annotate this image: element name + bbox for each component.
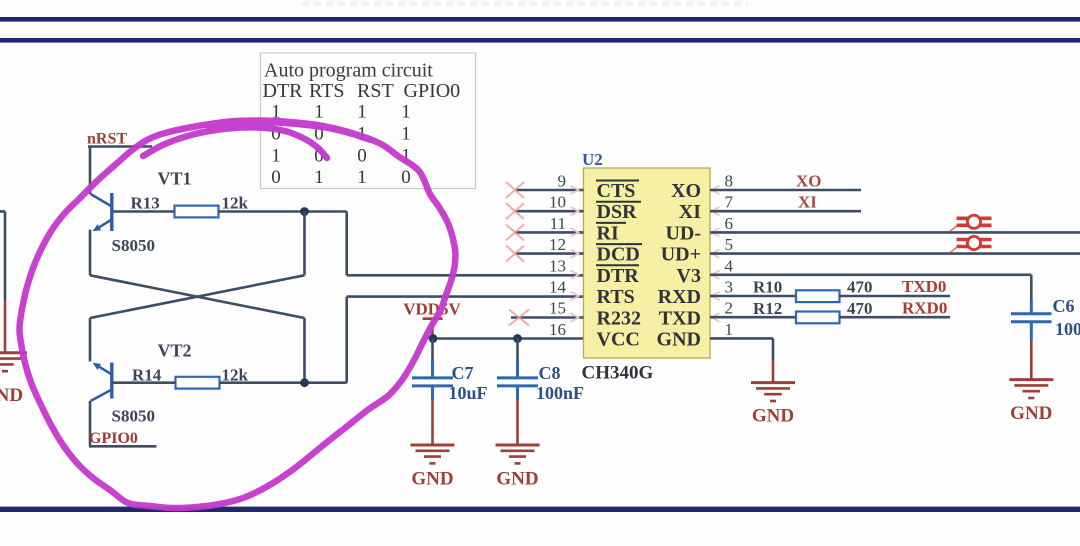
svg-text:GND: GND: [496, 469, 538, 490]
svg-text:GND: GND: [657, 329, 701, 351]
svg-text:RTS: RTS: [597, 286, 635, 308]
table: Auto program circuit truth table: [261, 53, 476, 189]
svg-text:12k: 12k: [222, 193, 249, 212]
wire cross diagonal B: [90, 275, 305, 318]
svg-text:R12: R12: [753, 299, 782, 318]
U2 pin names left column: [597, 180, 641, 351]
svg-text:RI: RI: [597, 222, 619, 244]
svg-text:RXD0: RXD0: [902, 298, 947, 317]
svg-text:CTS: CTS: [597, 180, 636, 202]
wire U2 pin 4 (V3) to C6: [710, 275, 1031, 300]
wire C8 to ground: [516, 400, 519, 445]
svg-text:R10: R10: [753, 278, 782, 297]
U2 pin entry chevrons: [571, 186, 720, 322]
diff-pair marker 2: [949, 240, 992, 254]
wire U2 pin 15 stub: [511, 316, 584, 319]
svg-text:470: 470: [847, 299, 873, 318]
svg-text:CH340G: CH340G: [582, 362, 654, 383]
svg-text:C7: C7: [452, 363, 474, 383]
svg-text:1: 1: [401, 124, 411, 145]
wire VT2 base to R14 to junction: [113, 381, 347, 384]
svg-text:TXD0: TXD0: [902, 277, 946, 296]
svg-text:1: 1: [271, 146, 281, 167]
wire U2 pin 10 stub: [515, 210, 584, 213]
svg-text:470: 470: [847, 278, 873, 297]
svg-text:7: 7: [725, 193, 734, 212]
svg-text:RTS: RTS: [309, 80, 344, 102]
wire GPIO0 net stub: [89, 445, 157, 448]
U2 pin names right column: [657, 180, 702, 351]
svg-text:8: 8: [725, 172, 734, 191]
svg-text:1: 1: [357, 167, 367, 188]
wire U2 pin 9 stub: [515, 189, 584, 192]
svg-text:1: 1: [314, 167, 324, 188]
svg-text:5: 5: [725, 235, 734, 254]
svg-text:1: 1: [725, 320, 734, 339]
node junction dot VCC/C8: [513, 334, 522, 343]
svg-text:C6: C6: [1053, 296, 1075, 316]
U2 pin number labels right: [725, 172, 734, 340]
wire R13 junction to chip pin13: [347, 212, 584, 276]
U2 active-low overlines: [596, 181, 642, 266]
svg-text:16: 16: [549, 320, 566, 339]
ground GND (pin1): [751, 383, 795, 401]
svg-text:DCD: DCD: [597, 244, 640, 266]
wire U2 pin 5 (UD+): [710, 252, 1080, 255]
svg-text:6: 6: [725, 214, 734, 233]
svg-text:VCC: VCC: [597, 329, 640, 351]
wire VT1 base to R13 to junction: [113, 210, 347, 213]
wire C7 to ground: [431, 400, 434, 445]
svg-text:XO: XO: [671, 180, 701, 202]
svg-text:GND: GND: [0, 385, 23, 406]
svg-text:GND: GND: [752, 406, 794, 427]
capacitor C7: [431, 339, 434, 361]
wire U2 pin 1 (GND): [710, 338, 773, 360]
svg-text:10uF: 10uF: [449, 383, 488, 403]
wire nRST net: [88, 147, 152, 195]
ground GND (C6): [1009, 380, 1053, 398]
svg-text:1: 1: [401, 102, 411, 123]
svg-text:12: 12: [549, 235, 566, 254]
svg-text:DSR: DSR: [597, 201, 638, 223]
wire vertical rails of cross: [90, 212, 305, 383]
wire U2 pin 6 (UD-): [710, 231, 1080, 234]
svg-text:0: 0: [271, 167, 281, 188]
svg-text:11: 11: [550, 214, 566, 233]
svg-text:R13: R13: [131, 193, 160, 212]
svg-text:VT1: VT1: [158, 169, 192, 189]
svg-text:GND: GND: [411, 469, 453, 490]
svg-text:nRST: nRST: [87, 131, 127, 148]
svg-text:GPIO0: GPIO0: [89, 430, 138, 447]
wire R14 junction up to chip pin14: [347, 297, 584, 383]
diff-pair marker 1: [949, 218, 992, 232]
wire U2 pin 8 (XO): [710, 189, 861, 192]
annotation magenta circle: [19, 120, 455, 508]
transistor Q VT1 (S8050): [91, 193, 112, 231]
svg-text:TXD: TXD: [659, 308, 701, 330]
svg-text:XI: XI: [679, 201, 701, 223]
svg-text:4: 4: [725, 256, 734, 275]
svg-text:9: 9: [558, 172, 567, 191]
svg-text:S8050: S8050: [112, 236, 155, 255]
no-connect X pin9: [506, 182, 529, 326]
svg-text:R232: R232: [597, 308, 641, 330]
svg-text:DTR: DTR: [263, 80, 304, 102]
wire cross diagonal A: [90, 275, 305, 318]
svg-text:XO: XO: [796, 171, 822, 190]
svg-text:XI: XI: [798, 193, 817, 212]
svg-text:DTR: DTR: [597, 265, 640, 287]
svg-text:VT2: VT2: [158, 341, 192, 361]
svg-text:GPIO0: GPIO0: [404, 80, 461, 102]
svg-text:15: 15: [549, 299, 566, 318]
ground GND (C8): [496, 445, 540, 463]
svg-text:2: 2: [725, 299, 734, 318]
svg-text:13: 13: [549, 256, 566, 275]
svg-text:UD-: UD-: [665, 222, 701, 244]
svg-text:Auto program circuit: Auto program circuit: [264, 60, 433, 82]
wire VT1 emitter vertical: [89, 230, 92, 276]
wire C6 to ground: [1030, 340, 1033, 379]
svg-text:100nF: 100nF: [536, 383, 584, 403]
svg-text:0: 0: [401, 167, 411, 188]
wire left vertical to GND: [0, 211, 5, 300]
svg-text:14: 14: [549, 278, 567, 297]
op-amp U2 chip body CH340G: [584, 168, 711, 358]
svg-text:10: 10: [549, 193, 566, 212]
node junction dot R14 out: [300, 378, 309, 387]
svg-text:1: 1: [357, 102, 367, 123]
svg-text:0: 0: [357, 146, 367, 167]
wire VCC net to chip pin16: [433, 337, 584, 340]
svg-text:S8050: S8050: [112, 407, 155, 426]
resistor R12: [710, 316, 796, 319]
svg-text:U2: U2: [582, 150, 603, 169]
capacitor C6: [1011, 300, 1052, 340]
svg-text:V3: V3: [677, 265, 701, 287]
wire U2 pin 12 stub: [515, 252, 584, 255]
node junction dot VCC/C7: [429, 334, 438, 343]
svg-text:C8: C8: [539, 363, 561, 383]
wire VT2 collector down: [89, 401, 92, 446]
ground GND (C7): [411, 445, 455, 463]
wire TXD0 net: [840, 295, 951, 298]
capacitor C8: [516, 339, 519, 361]
svg-text:UD+: UD+: [661, 244, 701, 266]
U2 pin number labels left: [549, 172, 567, 340]
transistor Q VT2 (S8050): [91, 363, 112, 402]
resistor R10: [710, 295, 796, 298]
svg-text:100nF: 100nF: [1055, 319, 1080, 339]
svg-text:RXD: RXD: [658, 286, 701, 308]
svg-text:RST: RST: [357, 80, 394, 102]
node junction dot R13 out: [300, 207, 309, 216]
wire RXD0 net: [840, 316, 951, 319]
svg-text:3: 3: [725, 278, 734, 297]
svg-text:1: 1: [314, 102, 324, 123]
wire U2 pin 11 stub: [515, 231, 584, 234]
svg-text:VDD5V: VDD5V: [403, 300, 461, 319]
ground GND (far left, clipped): [0, 353, 27, 371]
wire U2 pin 7 (XI): [710, 210, 861, 213]
svg-text:GND: GND: [1010, 403, 1052, 424]
